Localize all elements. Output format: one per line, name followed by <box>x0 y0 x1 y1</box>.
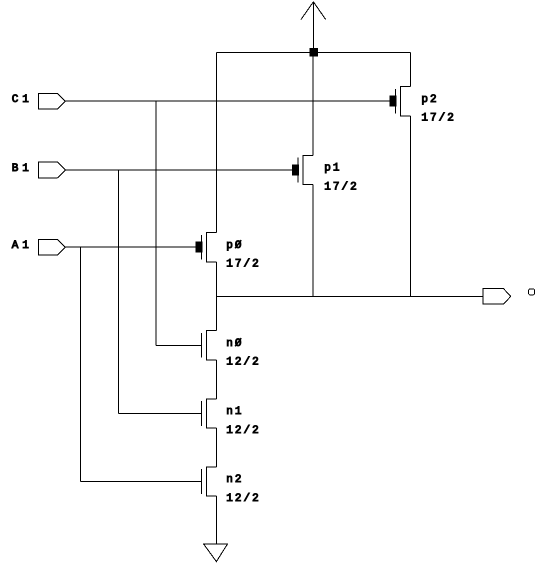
label O <box>529 289 535 295</box>
wire p2 drain to VDD rail corner <box>409 52 411 86</box>
wire n1 gate horizontal <box>119 413 202 415</box>
svg-text:p2: p2 <box>421 94 438 106</box>
svg-text:17/2: 17/2 <box>226 259 260 271</box>
svg-text:12/2: 12/2 <box>226 357 260 369</box>
pmos transistor p0 <box>196 233 216 262</box>
wire output node <box>216 295 483 297</box>
wire left rail from VDD rail to p0 drain <box>215 52 217 232</box>
ground symbol <box>204 544 228 562</box>
svg-text:n1: n1 <box>226 406 243 418</box>
pmos transistor p2 <box>390 87 410 116</box>
junction dot VDD node <box>310 48 318 56</box>
wire p2 source to output wire <box>409 116 411 297</box>
svg-text:C1: C1 <box>12 94 33 106</box>
wire n0 source to n1 drain <box>215 360 217 399</box>
svg-text:pØ: pØ <box>226 240 243 252</box>
power symbol VDD arrow <box>301 2 326 53</box>
wire C1 to p2 gate <box>65 100 390 102</box>
svg-text:nØ: nØ <box>226 338 243 350</box>
svg-text:B1: B1 <box>12 163 33 175</box>
wire B1 to p1 gate <box>65 169 292 171</box>
svg-text:A1: A1 <box>12 240 33 252</box>
wire p1 drain to VDD rail <box>312 52 314 155</box>
nmos transistor n1 <box>201 399 216 428</box>
svg-text:n2: n2 <box>226 474 243 486</box>
input pin B1 <box>38 162 65 178</box>
input pin C1 <box>38 93 65 109</box>
nmos transistor n0 <box>201 331 216 360</box>
wire C1 branch down to n0 gate <box>155 101 157 345</box>
output pin O <box>483 289 511 305</box>
svg-text:17/2: 17/2 <box>324 182 358 194</box>
wire B1 branch down to n1 gate <box>118 170 120 414</box>
wire A1 to p0 gate <box>65 246 196 248</box>
wire n2 gate horizontal <box>80 481 201 483</box>
svg-text:12/2: 12/2 <box>226 493 260 505</box>
wire p0 source to n0 drain (crosses output wire) <box>215 262 217 331</box>
wire A1 branch down to n2 gate <box>79 247 81 481</box>
svg-text:p1: p1 <box>324 163 341 175</box>
pmos transistor p1 <box>293 155 313 184</box>
svg-text:12/2: 12/2 <box>226 425 260 437</box>
wire n0 gate horizontal <box>156 344 202 346</box>
wire top rail VDD <box>216 51 410 53</box>
svg-text:17/2: 17/2 <box>421 113 455 125</box>
nmos transistor n2 <box>201 467 216 496</box>
wire n1 source to n2 drain <box>215 428 217 467</box>
wire p1 source to output wire <box>312 185 314 297</box>
wire n2 source to ground <box>215 496 217 544</box>
input pin A1 <box>38 239 65 255</box>
